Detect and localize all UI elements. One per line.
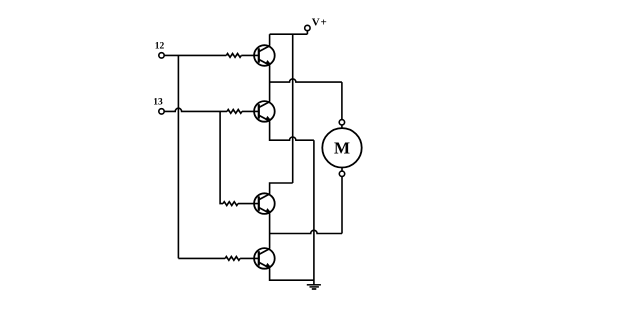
node motor bottom terminal (339, 171, 344, 176)
wire V+ stub (306, 31, 308, 34)
node input 13 terminal (159, 109, 164, 114)
svg-text:V+: V+ (312, 16, 328, 28)
svg-text:M: M (334, 139, 350, 158)
resistor R2 (227, 110, 242, 114)
svg-text:12: 12 (155, 41, 165, 51)
wire Q3 collector jog to V+ drop (270, 183, 293, 194)
resistor R3 (223, 202, 238, 206)
wire resistor to Q3 base (238, 203, 259, 205)
wire R4 to Q4 base (240, 257, 259, 259)
resistor R1 (226, 54, 241, 58)
transistor Q4 (254, 248, 275, 269)
wire Q2 emitter to ground drop (hops over V+ drop) (270, 121, 314, 140)
wire top rail (270, 33, 308, 35)
wire Q1 emitter to Q2 collector (269, 65, 271, 101)
wire V+ drop to Q3 collector (292, 34, 294, 183)
motor M1 (322, 128, 361, 167)
wire motor bottom terminal stub (341, 168, 343, 172)
transistor Q3 (254, 193, 275, 214)
node input 12 terminal (159, 53, 164, 58)
wire motor top lead (341, 82, 343, 120)
wire input 12 to resistor (164, 54, 226, 56)
node V+ terminal (305, 25, 310, 30)
wire Q3 emitter to Q4 collector (269, 213, 271, 248)
transistor Q2 (254, 101, 275, 122)
wire Q4 emitter to ground (270, 268, 314, 280)
wire node A to motor top (hops over V+ drop) (270, 79, 342, 82)
wire ground drop (313, 140, 315, 285)
wire Q1 collector lead (269, 34, 271, 46)
wire 12 drop to resistor R4 (178, 257, 225, 259)
wire motor top terminal stub (341, 125, 343, 128)
wire motor bottom lead (341, 177, 343, 234)
wire R2 to Q2 base (242, 110, 259, 112)
ground (307, 285, 321, 289)
node motor top terminal (339, 120, 344, 125)
wire input 12 drop to Q4 base row (177, 55, 179, 258)
transistor Q1 (254, 45, 275, 66)
wire input 13 drop to Q3 base row (220, 111, 223, 203)
svg-text:13: 13 (153, 98, 163, 108)
wire node B to motor bottom (hops over ground drop) (270, 230, 342, 233)
resistor R4 (225, 257, 240, 261)
wire R1 to Q1 base (241, 54, 258, 56)
wire input 13 to resistor (hops over 12 drop) (164, 108, 227, 111)
